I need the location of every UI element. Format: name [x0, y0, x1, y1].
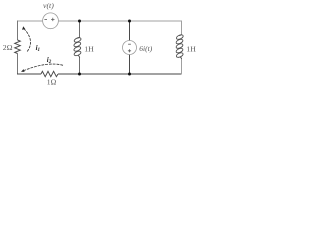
wire middle branch upper [79, 21, 81, 38]
dependent source U1 circle [123, 41, 137, 55]
wire top right [58, 20, 182, 22]
svg-text:6i(t): 6i(t) [139, 44, 152, 53]
inductor L1 coil [73, 37, 81, 58]
svg-text:1H: 1H [186, 45, 196, 54]
wire right upper [181, 21, 183, 35]
U1 minus sign [128, 43, 131, 45]
svg-text:i2: i2 [47, 56, 52, 65]
svg-text:2Ω: 2Ω [3, 43, 13, 52]
wire source branch lower [129, 55, 131, 75]
svg-text:1Ω: 1Ω [47, 78, 57, 87]
wire right lower [181, 59, 183, 75]
arrowhead i1 [22, 26, 25, 30]
resistor 1ohm zigzag [41, 71, 58, 76]
svg-text:i1: i1 [36, 44, 40, 53]
node dot bottom middle [78, 73, 81, 76]
wire source branch upper [129, 21, 131, 41]
svg-text:v(t): v(t) [43, 1, 54, 10]
wire top left [18, 20, 43, 22]
voltage source V1 circle [43, 13, 59, 29]
node dot top source branch [128, 20, 131, 23]
V1 minus sign [44, 19, 47, 21]
svg-text:1H: 1H [84, 45, 94, 54]
resistor 2ohm zigzag [15, 40, 21, 54]
wire middle branch lower [79, 58, 81, 75]
wire bottom left [17, 73, 41, 75]
node dot bottom source branch [128, 73, 131, 76]
current arrow i1 dashed curve [24, 28, 31, 51]
node dot top middle [78, 20, 81, 23]
V1 plus sign [51, 18, 54, 21]
wire bottom right [58, 73, 182, 75]
wire left upper [17, 21, 19, 41]
current arrow i2 dashed curve [24, 64, 63, 70]
inductor L2 coil [175, 34, 183, 59]
wire left lower [17, 54, 19, 75]
arrowhead i2 [21, 69, 25, 72]
U1 plus sign [128, 49, 131, 52]
